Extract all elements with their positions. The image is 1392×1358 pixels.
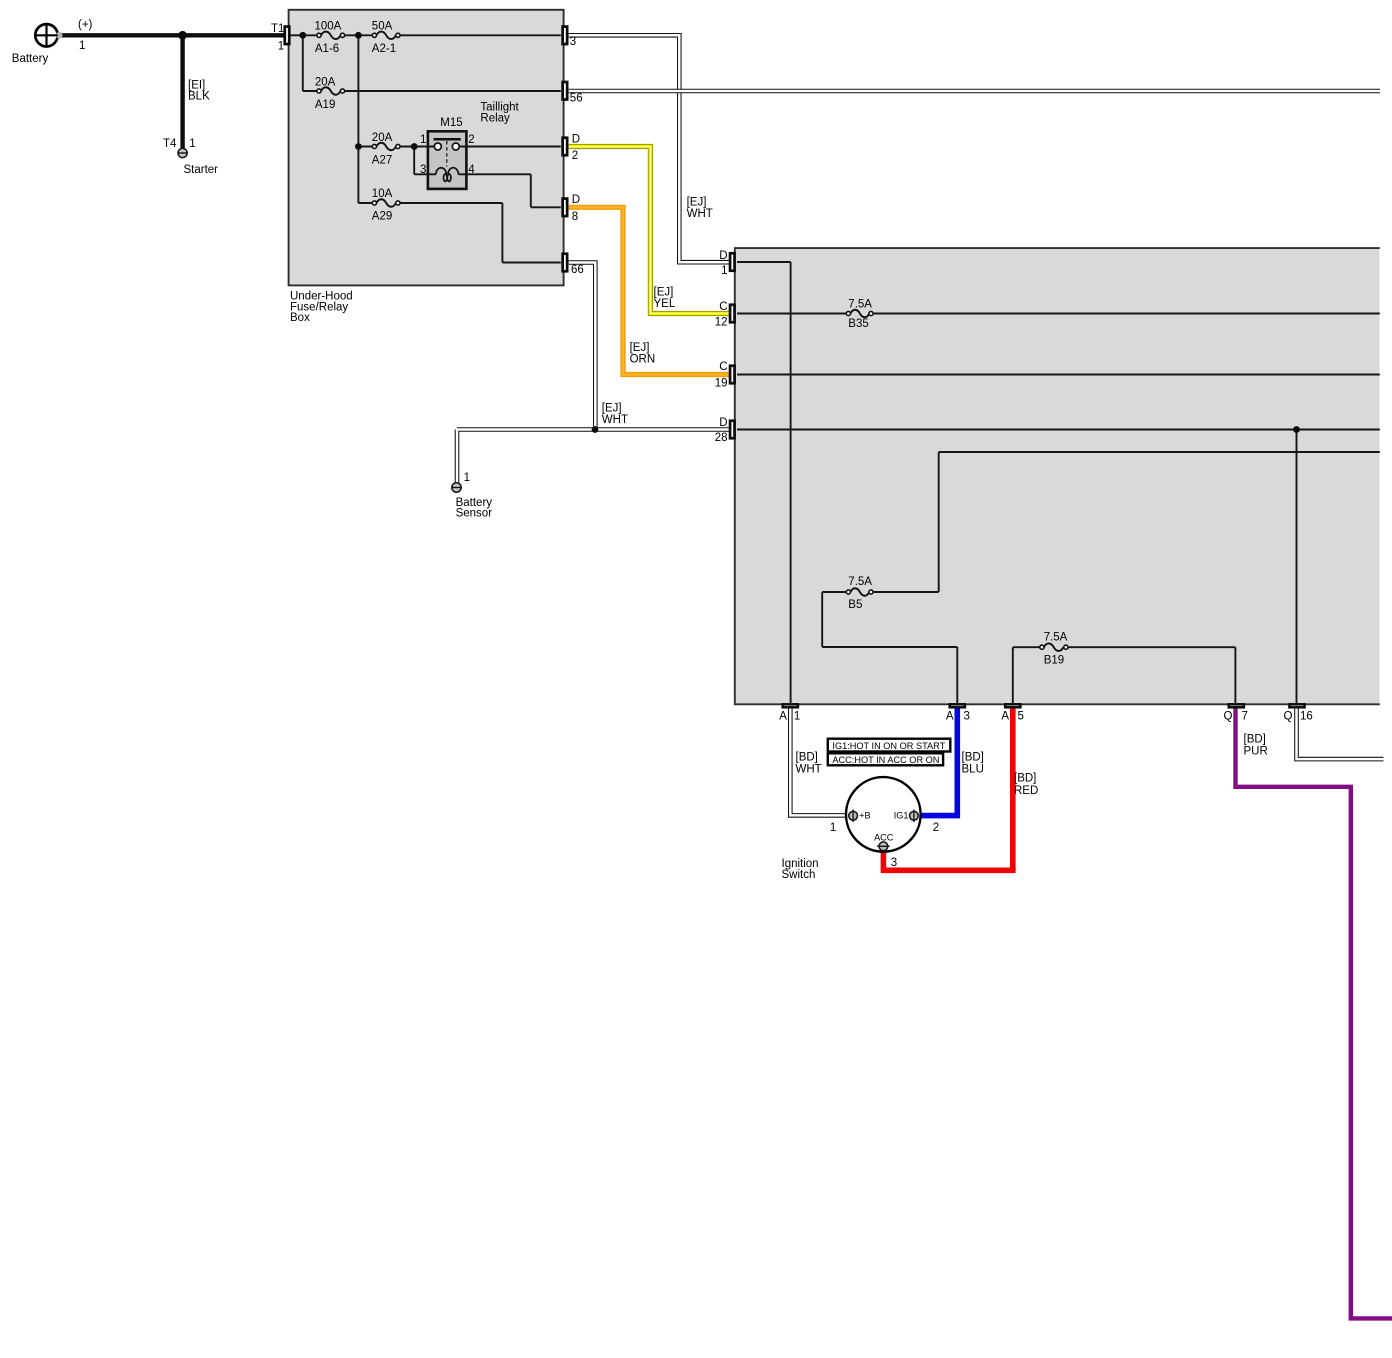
svg-text:A: A (946, 711, 954, 723)
svg-text:3: 3 (420, 164, 426, 176)
svg-text:7: 7 (1242, 711, 1248, 723)
svg-text:4: 4 (468, 164, 475, 176)
svg-text:T4: T4 (163, 138, 177, 150)
svg-text:5: 5 (1018, 711, 1024, 723)
svg-text:19: 19 (715, 377, 728, 389)
svg-text:[BD]: [BD] (796, 751, 818, 763)
svg-text:16: 16 (1300, 711, 1313, 723)
svg-text:IG1:HOT IN ON OR START: IG1:HOT IN ON OR START (832, 741, 945, 751)
svg-text:66: 66 (571, 264, 584, 276)
svg-text:2: 2 (468, 134, 474, 146)
svg-text:[EJ]: [EJ] (687, 196, 707, 208)
svg-text:B35: B35 (848, 318, 868, 330)
svg-text:Switch: Switch (782, 869, 816, 881)
svg-text:Starter: Starter (184, 164, 219, 176)
svg-text:1: 1 (721, 265, 727, 277)
svg-text:A1-6: A1-6 (315, 43, 339, 55)
svg-text:2: 2 (572, 150, 578, 162)
svg-text:1: 1 (830, 822, 836, 834)
svg-text:1: 1 (794, 711, 800, 723)
svg-text:IG1: IG1 (894, 810, 909, 820)
svg-text:Q: Q (1224, 711, 1233, 723)
svg-text:RED: RED (1014, 785, 1038, 797)
svg-text:D: D (572, 133, 580, 145)
svg-text:28: 28 (715, 432, 728, 444)
svg-text:YEL: YEL (654, 298, 676, 310)
svg-text:Battery: Battery (12, 53, 49, 65)
svg-text:(+): (+) (78, 19, 93, 31)
svg-text:A: A (779, 711, 787, 723)
svg-text:Q: Q (1284, 711, 1293, 723)
svg-text:B19: B19 (1044, 654, 1064, 666)
svg-text:7.5A: 7.5A (848, 576, 872, 588)
svg-text:ACC:HOT IN ACC OR ON: ACC:HOT IN ACC OR ON (832, 755, 939, 765)
svg-text:7.5A: 7.5A (1044, 631, 1068, 643)
svg-text:ORN: ORN (630, 354, 656, 366)
svg-text:M15: M15 (440, 117, 462, 129)
svg-text:ACC: ACC (874, 832, 894, 842)
svg-text:50A: 50A (372, 21, 393, 33)
svg-text:A19: A19 (315, 99, 335, 111)
svg-text:1: 1 (420, 134, 426, 146)
svg-text:[BD]: [BD] (1244, 733, 1266, 745)
svg-text:[EJ]: [EJ] (602, 403, 622, 415)
svg-text:D: D (719, 250, 727, 262)
svg-text:A2-1: A2-1 (372, 43, 396, 55)
svg-text:[EJ]: [EJ] (630, 342, 650, 354)
svg-text:20A: 20A (372, 132, 393, 144)
svg-text:A29: A29 (372, 211, 392, 223)
svg-text:3: 3 (964, 711, 970, 723)
svg-text:BLK: BLK (188, 90, 210, 102)
svg-text:10A: 10A (372, 188, 393, 200)
svg-text:C: C (719, 361, 727, 373)
svg-text:Sensor: Sensor (456, 508, 493, 520)
svg-text:PUR: PUR (1244, 746, 1268, 758)
svg-text:7.5A: 7.5A (848, 299, 872, 311)
svg-text:100A: 100A (315, 21, 342, 33)
svg-text:T1: T1 (271, 23, 284, 35)
svg-text:A27: A27 (372, 155, 392, 167)
svg-text:1: 1 (278, 40, 284, 52)
svg-text:2: 2 (933, 822, 939, 834)
svg-text:B5: B5 (848, 599, 862, 611)
svg-text:Box: Box (290, 312, 310, 324)
svg-text:8: 8 (572, 211, 578, 223)
svg-text:WHT: WHT (796, 764, 822, 776)
svg-text:Relay: Relay (480, 112, 510, 124)
svg-text:C: C (719, 301, 727, 313)
svg-text:1: 1 (189, 138, 195, 150)
svg-text:[BD]: [BD] (1014, 773, 1036, 785)
svg-text:1: 1 (79, 40, 85, 52)
svg-text:20A: 20A (315, 77, 336, 89)
svg-text:[EJ]: [EJ] (654, 286, 674, 298)
svg-text:12: 12 (715, 316, 728, 328)
svg-text:3: 3 (891, 857, 897, 869)
svg-text:[BD]: [BD] (962, 751, 984, 763)
svg-text:3: 3 (570, 36, 576, 48)
svg-text:WHT: WHT (602, 414, 628, 426)
svg-text:56: 56 (570, 93, 583, 105)
svg-text:WHT: WHT (687, 208, 713, 220)
svg-text:D: D (572, 194, 580, 206)
svg-text:BLU: BLU (962, 764, 984, 776)
svg-text:1: 1 (464, 472, 470, 484)
svg-text:A: A (1001, 711, 1009, 723)
svg-text:+B: +B (859, 810, 870, 820)
svg-text:D: D (719, 417, 727, 429)
